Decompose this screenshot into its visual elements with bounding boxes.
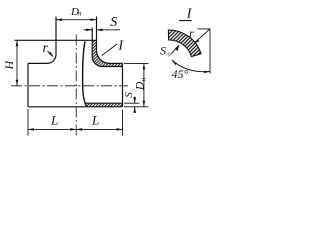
svg-text:н: н [139, 77, 147, 81]
svg-text:S: S [110, 15, 117, 30]
run outer bottom [28, 106, 123, 108]
inner fillet right section [92, 57, 102, 67]
leader I main view [102, 44, 117, 56]
right end ext lines [124, 62, 149, 64]
run inner bottom [85, 102, 122, 104]
svg-text:н: н [78, 9, 82, 17]
svg-text:r: r [189, 26, 194, 40]
svg-text:D: D [135, 81, 147, 91]
bore transition curve [83, 41, 87, 106]
centerline horizontal [11, 85, 128, 87]
svg-text:S: S [123, 92, 135, 98]
dimension H: line [16, 40, 18, 86]
fillet r left [47, 54, 56, 63]
detail r leader [195, 29, 210, 43]
run left end [27, 63, 29, 106]
dimension D_n top: line [56, 19, 97, 21]
centerline vertical [75, 35, 77, 137]
arrows L right [76, 128, 82, 131]
dimension D_n right [143, 63, 145, 106]
hatch: run bottom wall [85, 103, 122, 107]
arrows L left [28, 128, 34, 131]
ext right [122, 110, 124, 136]
outer fillet right section [97, 50, 110, 63]
dimension S top: tails and arrows [84, 29, 93, 31]
dim line L L [28, 128, 123, 130]
bottom dims: ext left [27, 109, 29, 136]
svg-text:r: r [43, 41, 49, 56]
svg-text:0: 0 [168, 53, 171, 59]
svg-text:H: H [2, 60, 16, 71]
branch right outer wall with extension up [96, 17, 98, 51]
svg-text:L: L [91, 113, 99, 128]
detail corner lines [198, 29, 211, 74]
detail S0 arrow [171, 46, 178, 54]
run top left [28, 62, 47, 64]
svg-text:L: L [50, 113, 58, 128]
svg-text:S: S [160, 44, 166, 58]
run top right [110, 62, 123, 64]
detail 45 arc [172, 60, 210, 72]
svg-text:45°: 45° [172, 67, 189, 81]
tee outline: branch top [15, 39, 97, 41]
run inner top [102, 66, 122, 68]
hatch: branch wall + corner + run top wall [92, 40, 122, 66]
detail band (quarter ring) [168, 30, 201, 57]
branch inner right wall [91, 28, 93, 57]
run right end [122, 63, 124, 106]
D_n arrows [56, 18, 62, 21]
branch left outer wall with extension up [55, 17, 57, 55]
dimension S right [134, 97, 136, 104]
